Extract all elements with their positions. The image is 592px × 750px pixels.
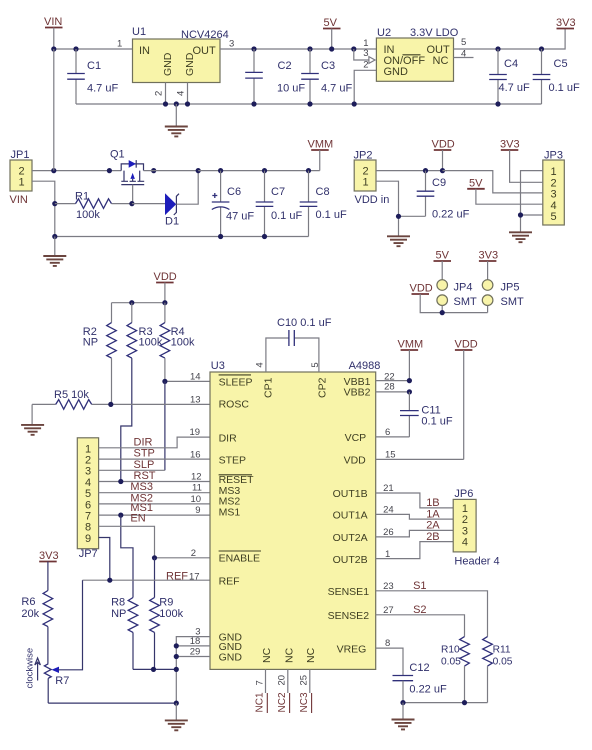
svg-text:4: 4 [551, 200, 557, 212]
resistor R3 100k [121, 303, 163, 482]
svg-text:C4: C4 [504, 58, 518, 70]
node bottom rail [174, 701, 179, 706]
label REF and pin17 [166, 570, 200, 582]
svg-text:100k: 100k [139, 337, 163, 349]
label clockwise [25, 648, 41, 689]
node D1 cathode riser [196, 168, 201, 173]
ground C12 [392, 703, 415, 730]
node VIN col pin2 [51, 168, 56, 173]
svg-text:19: 19 [190, 427, 201, 438]
capacitor C5 [533, 49, 580, 104]
wire JP3 pin5 gnd [521, 214, 543, 216]
wire ENABLE pin2 [155, 557, 211, 559]
svg-text:5V: 5V [436, 250, 450, 262]
node C9 top [423, 168, 428, 173]
svg-text:2: 2 [154, 91, 165, 96]
wire OUT1B pin21 [376, 493, 454, 508]
wire ROSC pin13 [111, 403, 210, 405]
svg-text:NC: NC [261, 647, 273, 663]
wire bottom gnd rail [48, 702, 176, 704]
svg-text:NC2: NC2 [277, 692, 288, 712]
node C6 C7 C8 top [218, 168, 311, 173]
svg-text:NC3: NC3 [299, 692, 310, 712]
svg-text:R7: R7 [55, 675, 69, 687]
wire JP2 pin1 to gnd [376, 181, 399, 236]
wire JP1 pin2 to Q1 [32, 170, 121, 172]
svg-text:GND: GND [219, 652, 243, 664]
wire U3 GND pin18 [176, 645, 210, 647]
wire VREG pin8 [376, 648, 403, 675]
svg-text:NC: NC [305, 647, 317, 663]
svg-text:CP2: CP2 [317, 377, 329, 398]
node U1 gnd pins and caps on rail [163, 101, 501, 106]
wire VCP pin6 [376, 436, 410, 438]
wire REF pin17 [83, 579, 211, 581]
node JP4 bottom [440, 310, 445, 315]
wire U1 GND pins [166, 83, 188, 105]
svg-text:5V: 5V [469, 177, 483, 189]
svg-text:C7: C7 [271, 186, 285, 198]
capacitor C4 [489, 49, 530, 104]
supply VDD right [455, 339, 478, 460]
svg-text:C6: C6 [227, 186, 241, 198]
svg-text:100k: 100k [159, 608, 183, 620]
svg-text:GND: GND [384, 66, 409, 78]
svg-text:C12: C12 [409, 662, 429, 674]
jumper JP5 SMT [482, 280, 524, 313]
svg-text:9: 9 [195, 505, 200, 516]
svg-text:OUT1A: OUT1A [333, 510, 368, 522]
supply 5V top [323, 17, 341, 52]
svg-text:VBB2: VBB2 [344, 386, 371, 398]
svg-text:2: 2 [363, 60, 368, 71]
svg-text:NC: NC [284, 647, 296, 663]
svg-text:0.1 uF: 0.1 uF [316, 209, 347, 221]
svg-text:DIR: DIR [134, 436, 153, 448]
ground JP3 [509, 232, 532, 242]
svg-text:U2: U2 [377, 27, 391, 39]
svg-text:SENSE1: SENSE1 [328, 586, 370, 598]
svg-text:C8: C8 [316, 186, 330, 198]
svg-text:Q1: Q1 [110, 149, 125, 161]
svg-text:13: 13 [190, 395, 201, 406]
svg-text:C5: C5 [554, 58, 568, 70]
wire OUT1A pin24 [376, 514, 454, 519]
node JP2 gnd [396, 214, 401, 219]
node C3 top [307, 46, 312, 51]
wire MS2 [99, 503, 210, 505]
svg-text:RST: RST [134, 470, 156, 482]
ground R5 [21, 404, 44, 434]
wire VDD pin15 [376, 458, 464, 460]
node EN junction [152, 555, 157, 560]
wire DIR [99, 437, 210, 448]
svg-text:OUT: OUT [193, 45, 217, 57]
svg-text:C1: C1 [87, 60, 101, 72]
svg-text:0.22 uF: 0.22 uF [409, 684, 447, 696]
svg-text:VDD: VDD [410, 283, 433, 295]
svg-text:3V3: 3V3 [500, 139, 520, 151]
svg-text:9: 9 [85, 533, 91, 545]
wire MS1 to R8 [121, 515, 133, 597]
svg-text:2A: 2A [426, 520, 440, 532]
node R3 R4 top [129, 300, 167, 305]
supply VDD at JP2 [432, 139, 455, 171]
capacitor C12 [393, 662, 447, 703]
svg-text:U1: U1 [132, 26, 146, 38]
supply 5V at JP4 [434, 250, 452, 280]
svg-text:4: 4 [254, 362, 265, 367]
svg-text:D1: D1 [165, 216, 179, 228]
node GND pins [174, 643, 179, 659]
resistor R5 10k [32, 389, 111, 409]
node Q1 gate R1 D1 [129, 201, 134, 206]
svg-text:VIN: VIN [44, 16, 62, 28]
ground bottom [165, 703, 188, 730]
U3 right pin numbers [383, 371, 395, 649]
svg-text:NCV4264: NCV4264 [181, 29, 229, 41]
node gnd vertical [174, 667, 179, 672]
svg-text:ROSC: ROSC [219, 398, 250, 410]
svg-text:STEP: STEP [219, 455, 246, 467]
node MS1 R8 branch [118, 513, 123, 518]
svg-text:1: 1 [19, 177, 25, 189]
transistor Q1 [107, 149, 198, 204]
svg-text:4.7 uF: 4.7 uF [499, 82, 530, 94]
wire SLEEP pin14 [165, 380, 210, 382]
svg-text:4: 4 [462, 537, 468, 549]
svg-text:23: 23 [383, 581, 394, 592]
svg-text:47 uF: 47 uF [226, 211, 254, 223]
svg-text:JP3: JP3 [544, 150, 563, 162]
ground under U1 [165, 104, 188, 136]
svg-text:0.1 uF: 0.1 uF [421, 416, 452, 428]
svg-text:100k: 100k [76, 209, 100, 221]
svg-text:SENSE2: SENSE2 [328, 610, 370, 622]
svg-text:0.1 uF: 0.1 uF [549, 82, 580, 94]
header JP6 [453, 488, 499, 568]
svg-text:0.05: 0.05 [441, 657, 461, 668]
svg-text:U3: U3 [211, 360, 225, 372]
svg-text:18: 18 [190, 636, 201, 647]
svg-text:DIR: DIR [219, 433, 238, 445]
svg-text:NC1: NC1 [255, 692, 266, 712]
inverter bubble pin3 [369, 57, 375, 64]
node RST R3 [118, 479, 123, 484]
svg-text:8: 8 [85, 522, 91, 534]
svg-text:SLP: SLP [134, 459, 155, 471]
svg-text:R5 10k: R5 10k [54, 389, 89, 401]
ground JP2 [387, 236, 410, 246]
svg-text:JP2: JP2 [354, 150, 373, 162]
svg-text:20k: 20k [21, 608, 39, 620]
resistor R8 NP [111, 597, 138, 670]
svg-text:4: 4 [176, 91, 187, 96]
svg-text:3: 3 [551, 189, 557, 201]
svg-text:3.3V LDO: 3.3V LDO [410, 27, 459, 39]
svg-text:3: 3 [462, 525, 468, 537]
wire SLP [99, 469, 165, 471]
wire JP3 pin1 gnd [521, 171, 543, 233]
svg-text:1: 1 [551, 166, 557, 178]
wire EN [99, 526, 155, 558]
svg-text:3V3: 3V3 [556, 17, 576, 29]
svg-text:1: 1 [117, 39, 122, 50]
supply VIN top [44, 16, 63, 49]
svg-text:R10: R10 [441, 645, 460, 656]
svg-text:MS3: MS3 [130, 481, 153, 493]
svg-text:0.1 uF: 0.1 uF [271, 210, 302, 222]
wire VMM row [198, 170, 320, 172]
supply VDD at JP4 [410, 283, 488, 313]
capacitor C6 polarized [212, 171, 255, 237]
header JP2 [354, 150, 390, 207]
node SLEEP junction [162, 379, 167, 384]
svg-text:11: 11 [192, 483, 202, 494]
header JP7 [77, 438, 98, 560]
supply 3V3 at JP3 [500, 139, 543, 183]
svg-text:STP: STP [134, 448, 155, 460]
U3 top pins CP1 CP2 [254, 362, 328, 398]
wire U3 GND pin29 [176, 656, 210, 658]
svg-text:MS1: MS1 [219, 506, 241, 518]
svg-text:2: 2 [551, 177, 557, 189]
wire MS1 [99, 514, 210, 516]
wire R1 to D1 anode [132, 203, 165, 205]
node REF row9 [107, 578, 112, 583]
wire JP2 pin2 to VDD [376, 170, 443, 172]
svg-text:14: 14 [190, 372, 201, 383]
resistor R10 0.05 [441, 637, 469, 703]
svg-text:VDD: VDD [154, 271, 177, 283]
svg-text:2: 2 [191, 548, 196, 559]
svg-text:C9: C9 [432, 177, 446, 189]
supply VDD above R4 [154, 271, 177, 303]
wire OUT2B pin1 [376, 542, 454, 559]
svg-text:NP: NP [83, 337, 98, 349]
regulator U2 3.3V LDO [363, 27, 466, 81]
svg-text:2B: 2B [426, 531, 439, 543]
node ROSC junction [108, 402, 113, 407]
svg-text:NC: NC [433, 55, 449, 67]
svg-text:C3: C3 [321, 60, 335, 72]
supply 3V3 top right [556, 17, 576, 29]
svg-text:3V3: 3V3 [479, 250, 499, 262]
svg-text:VDD: VDD [455, 339, 478, 351]
capacitor C7 [256, 171, 303, 237]
wire U2 GND pin2 [354, 70, 376, 104]
resistor R11 0.05 [483, 637, 513, 703]
svg-text:100k: 100k [171, 337, 195, 349]
wire U2 ON/OFF pin3 [354, 49, 369, 60]
wire U1 OUT 5V rail [220, 48, 376, 50]
U3 left pin names [219, 375, 261, 664]
resistor R6 20k [21, 591, 52, 664]
svg-text:1A: 1A [426, 508, 440, 520]
svg-text:SMT: SMT [454, 296, 478, 308]
node VBB1 VBB2 [407, 378, 412, 395]
svg-text:S1: S1 [413, 580, 426, 592]
wire SENSE2 pin27 [376, 615, 465, 637]
svg-text:IN: IN [139, 45, 150, 57]
svg-text:A4988: A4988 [349, 360, 381, 372]
svg-text:ENABLE: ENABLE [219, 553, 260, 565]
resistor R9 100k [150, 597, 184, 670]
svg-text:1: 1 [85, 443, 91, 455]
svg-text:12: 12 [191, 472, 202, 483]
diode D1 zener [165, 171, 198, 228]
svg-text:6: 6 [85, 499, 91, 511]
svg-text:5: 5 [85, 488, 91, 500]
svg-text:VMM: VMM [398, 339, 424, 351]
svg-text:3: 3 [363, 48, 368, 59]
IC U3 A4988 [210, 360, 380, 669]
node R1 left [52, 201, 57, 206]
svg-text:VDD: VDD [432, 139, 455, 151]
svg-text:R9: R9 [159, 597, 173, 609]
wire SLP vertical [164, 381, 166, 470]
svg-text:2: 2 [462, 514, 468, 526]
svg-text:OUT2A: OUT2A [333, 532, 368, 544]
svg-text:20: 20 [277, 675, 288, 686]
wire VIN vertical [53, 49, 55, 171]
wire VDD pullup rail [112, 302, 165, 304]
svg-text:25: 25 [299, 675, 310, 686]
svg-text:clockwise: clockwise [25, 648, 36, 689]
potentiometer R7 [44, 580, 82, 703]
node C4 top [495, 46, 500, 51]
svg-text:R11: R11 [493, 645, 511, 656]
ground left rail [43, 237, 66, 266]
svg-text:SMT: SMT [501, 296, 525, 308]
svg-text:JP6: JP6 [454, 488, 473, 500]
svg-text:5: 5 [461, 37, 466, 48]
svg-text:1: 1 [462, 503, 468, 515]
wire gnd rail mid [55, 236, 309, 238]
svg-text:7: 7 [254, 680, 265, 685]
svg-text:Header 4: Header 4 [454, 556, 499, 568]
svg-text:GND: GND [184, 52, 196, 76]
wire C9 bottom [399, 215, 426, 217]
svg-text:VIN: VIN [10, 194, 28, 206]
svg-text:NP: NP [111, 608, 126, 620]
svg-text:0.05: 0.05 [493, 657, 513, 668]
svg-text:7: 7 [85, 511, 91, 523]
svg-text:1: 1 [363, 177, 369, 189]
svg-text:1B: 1B [426, 497, 439, 509]
svg-text:4.7 uF: 4.7 uF [321, 83, 352, 95]
svg-text:VDD in: VDD in [355, 194, 390, 206]
header JP1 [10, 149, 33, 206]
svg-text:JP5: JP5 [501, 282, 520, 294]
capacitor C10 [266, 317, 332, 372]
svg-text:3: 3 [229, 39, 234, 50]
node R9 bottom [151, 667, 156, 672]
svg-text:17: 17 [189, 571, 200, 582]
svg-text:JP1: JP1 [11, 149, 30, 161]
capacitor C2 [245, 49, 305, 104]
svg-text:2: 2 [85, 455, 91, 467]
supply 3V3 at JP5 [479, 250, 499, 280]
svg-text:10 uF: 10 uF [277, 83, 305, 95]
capacitor C3 [301, 49, 352, 104]
wire U2 OUT to 3V3 [454, 29, 566, 50]
svg-text:C10 0.1 uF: C10 0.1 uF [277, 317, 332, 329]
wire MS3 [99, 492, 210, 494]
wire EN to R9 [154, 558, 156, 598]
wire VBB1 pin22 [376, 380, 410, 382]
wire STP [99, 458, 210, 460]
wire U3 GND pin3 [176, 637, 210, 704]
svg-text:VREG: VREG [337, 643, 367, 655]
capacitor C8 [300, 171, 347, 237]
U3 bottom NC pins [254, 647, 317, 713]
wire JP7 row9 to REF [99, 538, 110, 581]
svg-text:3V3: 3V3 [39, 550, 59, 562]
resistor R1 [55, 191, 132, 222]
wire RST [99, 481, 210, 483]
wire JP3 pin3 VDD [443, 171, 543, 193]
capacitor C9 [417, 171, 470, 221]
wire VIN to U1 IN [54, 48, 133, 50]
node mid rail [52, 234, 267, 239]
svg-text:5: 5 [551, 211, 557, 223]
wire ground rail top [76, 103, 542, 105]
supply 3V3 at R6 [39, 550, 59, 591]
svg-text:OUT2B: OUT2B [333, 554, 368, 566]
resistor R2 NP [83, 303, 117, 405]
svg-text:R8: R8 [111, 597, 125, 609]
svg-text:C2: C2 [278, 60, 292, 72]
node VIN-C1 [51, 46, 78, 51]
svg-text:29: 29 [190, 647, 201, 658]
node JP3 gnd [518, 212, 523, 217]
svg-text:5V: 5V [324, 17, 338, 29]
svg-text:JP4: JP4 [454, 282, 473, 294]
supply VMM mid [308, 139, 334, 171]
svg-text:EN: EN [130, 512, 145, 524]
U3 left pin numbers [190, 372, 202, 658]
svg-text:28: 28 [384, 382, 395, 393]
svg-text:REF: REF [166, 570, 188, 582]
svg-text:REF: REF [219, 575, 240, 587]
svg-text:VCP: VCP [345, 432, 367, 444]
node C5 top [539, 46, 544, 51]
node VDD drop [440, 168, 445, 173]
resistor R4 100k [160, 303, 195, 382]
wire SENSE1 pin23 [376, 591, 488, 637]
wire JP1 pin1 down [32, 181, 55, 236]
svg-text:4.7 uF: 4.7 uF [87, 83, 118, 95]
regulator U1 NCV4264 [117, 26, 234, 96]
svg-text:CP1: CP1 [263, 377, 275, 398]
node U2 pin3 branch [351, 46, 356, 51]
svg-text:OUT1B: OUT1B [333, 488, 368, 500]
wire sense gnd rail [403, 702, 488, 704]
svg-text:VMM: VMM [308, 139, 334, 151]
svg-text:GND: GND [162, 52, 174, 76]
svg-text:R6: R6 [21, 596, 35, 608]
node sense rail [400, 700, 467, 705]
capacitor C1 [67, 49, 118, 104]
header JP3 [543, 150, 565, 226]
svg-text:0.22 uF: 0.22 uF [432, 209, 470, 221]
supply 5V at JP3 [467, 177, 543, 204]
U3 right pin names [328, 376, 371, 655]
node C2 top [251, 46, 256, 51]
svg-text:10: 10 [191, 494, 202, 505]
capacitor C11 [400, 392, 453, 437]
